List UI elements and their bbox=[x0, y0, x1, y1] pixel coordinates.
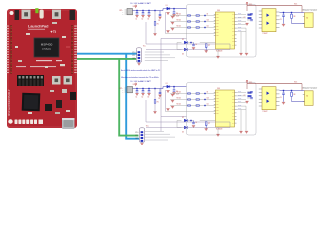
bottom module gate driver U3 bbox=[262, 87, 276, 110]
svg-text:GND: GND bbox=[135, 138, 138, 140]
bottom module VCC power rail to driver bbox=[247, 83, 302, 85]
svg-text:R3 10k: R3 10k bbox=[177, 98, 182, 100]
svg-text:Ultra-low-cost interface trans: Ultra-low-cost interface transmits the T… bbox=[121, 76, 159, 79]
svg-text:C11: C11 bbox=[207, 26, 210, 28]
svg-text:C4: C4 bbox=[158, 98, 160, 100]
svg-text:VCC: VCC bbox=[133, 84, 136, 86]
bottom module module box outline bbox=[187, 83, 257, 136]
top module row gnd stubs bbox=[166, 13, 169, 15]
bottom module U2 right net labels bbox=[237, 92, 247, 94]
svg-text:TC4427: TC4427 bbox=[263, 33, 268, 35]
bottom module feedback vertical net bbox=[165, 90, 167, 112]
svg-text:XD: XD bbox=[306, 95, 308, 97]
svg-text:D1: D1 bbox=[166, 83, 168, 85]
top module connector stub nets bbox=[145, 51, 164, 53]
bottom module battery terminal BT1 bbox=[127, 87, 133, 93]
svg-text:OUT4: OUT4 bbox=[238, 23, 242, 25]
left pin header J1 bbox=[6, 26, 9, 27]
top module VCC power rail to driver bbox=[247, 5, 302, 7]
bottom module VCC flag bbox=[135, 83, 137, 86]
top module VCC flag bbox=[135, 5, 137, 8]
svg-text:OUT2: OUT2 bbox=[238, 94, 242, 96]
svg-text:OUT2: OUT2 bbox=[238, 16, 242, 18]
bottom module net feeding input diodes bbox=[161, 115, 187, 117]
svg-text:C1: C1 bbox=[135, 96, 137, 98]
svg-text:R4 10k: R4 10k bbox=[177, 104, 182, 106]
right pin header J2 bbox=[74, 26, 77, 27]
top module capacitor C6 after diodes bbox=[188, 42, 194, 44]
svg-text:VDD: VDD bbox=[217, 10, 220, 12]
svg-text:C10: C10 bbox=[207, 98, 210, 100]
top module gate driver U3 bbox=[262, 9, 276, 32]
svg-text:PB7: PB7 bbox=[216, 113, 219, 115]
svg-text:C3: C3 bbox=[147, 96, 149, 98]
top module resistor R7 vertical bbox=[200, 42, 206, 44]
top module feedback resistor R1 bbox=[154, 11, 156, 22]
svg-text:VCC: VCC bbox=[143, 46, 146, 48]
svg-text:R8: R8 bbox=[294, 16, 296, 18]
svg-text:OUT1: OUT1 bbox=[238, 91, 242, 93]
svg-text:PB7: PB7 bbox=[216, 35, 219, 37]
svg-text:PB1: PB1 bbox=[216, 95, 219, 97]
svg-text:OUT1: OUT1 bbox=[238, 13, 242, 15]
bottom module capacitor C5 bbox=[173, 87, 175, 90]
bottom module U2 gnd stubs bbox=[240, 110, 242, 131]
svg-text:C4: C4 bbox=[158, 20, 160, 22]
top module net flags right of U2 bbox=[248, 14, 252, 16]
button S1 bbox=[52, 10, 61, 20]
svg-text:PB3: PB3 bbox=[216, 101, 219, 103]
svg-text:10uF: 10uF bbox=[176, 94, 179, 96]
svg-text:C9: C9 bbox=[207, 14, 209, 16]
svg-text:VDD: VDD bbox=[217, 88, 220, 90]
bottom module input diodes D2 D3 bbox=[177, 120, 182, 122]
white crystal oscillator bbox=[40, 10, 44, 19]
top module U2 right net labels bbox=[237, 14, 247, 16]
top module U2 gnd stubs bbox=[240, 32, 242, 53]
svg-text:VCC: VCC bbox=[146, 126, 149, 128]
svg-text:Each eZ430 wireless module att: Each eZ430 wireless module attach the UA… bbox=[121, 69, 161, 72]
MSP430 LaunchPad board bbox=[7, 9, 77, 128]
svg-text:PB2: PB2 bbox=[216, 20, 219, 22]
bottom module net VCC rail bbox=[133, 88, 164, 90]
svg-text:C8: C8 bbox=[280, 19, 282, 21]
top module capacitor C5 bbox=[173, 9, 175, 12]
bottom module output net to transducer bbox=[280, 90, 305, 92]
top module diode D1 bbox=[167, 7, 170, 10]
wire green from P2.1 to top module bbox=[77, 58, 136, 60]
svg-text:R4 10k: R4 10k bbox=[177, 26, 182, 28]
wire blue from P2.0 to top module bbox=[77, 53, 137, 55]
svg-text:D3: D3 bbox=[182, 132, 184, 134]
svg-text:P2.0: P2.0 bbox=[135, 132, 138, 134]
svg-text:C1: C1 bbox=[135, 18, 137, 20]
header top-right bbox=[70, 10, 76, 20]
svg-text:PB3: PB3 bbox=[216, 23, 219, 25]
svg-text:OUT5: OUT5 bbox=[238, 105, 242, 107]
top module output resistor R8 bbox=[291, 14, 293, 18]
bottom module boost IC U2 bbox=[216, 90, 235, 127]
top module module box outline bbox=[187, 5, 257, 58]
svg-text:P2.0: P2.0 bbox=[132, 52, 135, 54]
svg-text:PB6: PB6 bbox=[216, 32, 219, 34]
button S2 right bbox=[64, 76, 73, 85]
svg-text:R3 10k: R3 10k bbox=[177, 20, 182, 22]
green power LED bbox=[35, 8, 38, 13]
silkscreen jumper boxes bottom bbox=[15, 120, 18, 125]
small ICs near bottom bbox=[45, 104, 52, 111]
bottom module feedback resistor R1 bbox=[154, 89, 156, 100]
svg-text:P2.1: P2.1 bbox=[132, 55, 135, 57]
svg-text:PB5: PB5 bbox=[216, 107, 219, 109]
bottom module routing nets bbox=[145, 100, 147, 122]
top module output net to transducer bbox=[280, 12, 305, 14]
svg-text:C8: C8 bbox=[280, 97, 282, 99]
bottom module capacitor C4 bbox=[159, 89, 161, 93]
svg-text:D3: D3 bbox=[182, 54, 184, 56]
svg-text:F5529: F5529 bbox=[42, 47, 51, 51]
svg-text:LaunchPad: LaunchPad bbox=[28, 25, 49, 29]
svg-text:PB2: PB2 bbox=[216, 98, 219, 100]
svg-text:GND: GND bbox=[132, 58, 135, 60]
bottom module decoupling caps C1 C2 C3 bbox=[136, 89, 138, 91]
assorted passives bbox=[26, 33, 30, 35]
svg-text:PB0: PB0 bbox=[216, 14, 219, 16]
svg-text:PB1: PB1 bbox=[216, 17, 219, 19]
svg-text:OUT3: OUT3 bbox=[238, 20, 242, 22]
svg-text:C3: C3 bbox=[147, 18, 149, 20]
svg-text:PB4: PB4 bbox=[216, 104, 219, 106]
svg-text:D2: D2 bbox=[182, 117, 184, 119]
bottom module connector stub nets bbox=[145, 130, 164, 132]
wire blue branch down to bottom module bbox=[126, 54, 139, 139]
svg-text:P2.1: P2.1 bbox=[135, 135, 138, 137]
svg-text:D2: D2 bbox=[182, 39, 184, 41]
svg-text:C2: C2 bbox=[141, 96, 143, 98]
bottom module net flags right of U2 bbox=[248, 92, 252, 94]
top module routing nets bbox=[145, 22, 147, 44]
top module driver input caps bbox=[247, 13, 250, 15]
top module net feeding input diodes bbox=[161, 37, 187, 39]
top module timing network rows R2 R3 R4 bbox=[170, 15, 216, 17]
svg-text:✦TI: ✦TI bbox=[50, 30, 56, 34]
svg-text:C7: C7 bbox=[244, 17, 246, 19]
silkscreen text under chip bbox=[36, 60, 52, 61]
svg-text:TC4427: TC4427 bbox=[263, 111, 268, 113]
svg-text:MSP-EXP430F5529LP: MSP-EXP430F5529LP bbox=[7, 89, 11, 116]
svg-text:OUT3: OUT3 bbox=[238, 98, 242, 100]
svg-text:R2 10k: R2 10k bbox=[177, 14, 182, 16]
svg-text:C9: C9 bbox=[207, 92, 209, 94]
bottom module driver input caps bbox=[247, 91, 250, 93]
svg-text:D1: D1 bbox=[166, 5, 168, 7]
svg-text:R7: R7 bbox=[208, 123, 210, 125]
svg-text:PB6: PB6 bbox=[216, 110, 219, 112]
svg-text:MSP430: MSP430 bbox=[41, 43, 53, 47]
svg-text:R2 10k: R2 10k bbox=[177, 92, 182, 94]
svg-text:C11: C11 bbox=[207, 104, 210, 106]
bottom module junction dots on rail bbox=[136, 88, 137, 89]
top module boost IC U2 bbox=[216, 12, 235, 49]
top module net VCC rail bbox=[133, 10, 164, 12]
svg-text:TL494CN: TL494CN bbox=[216, 128, 222, 130]
svg-text:10uF: 10uF bbox=[176, 16, 179, 18]
svg-text:VCC: VCC bbox=[133, 6, 136, 8]
svg-text:XD: XD bbox=[306, 17, 308, 19]
svg-text:C6: C6 bbox=[195, 122, 197, 124]
top module interface connector J1 bbox=[136, 48, 141, 63]
svg-text:OUT4: OUT4 bbox=[238, 101, 242, 103]
bottom module output cap C8 bbox=[283, 91, 285, 93]
reset button S3 bbox=[22, 10, 31, 20]
bottom module capacitor C6 after diodes bbox=[188, 120, 194, 122]
svg-text:C2: C2 bbox=[141, 18, 143, 20]
top module capacitor C4 bbox=[159, 11, 161, 15]
isolation jumper block J101 bbox=[17, 75, 44, 86]
top module feedback vertical net bbox=[165, 12, 167, 34]
net vertical linking modules bbox=[160, 52, 162, 116]
svg-text:PB5: PB5 bbox=[216, 29, 219, 31]
bottom module interface connector J1 bbox=[139, 128, 144, 143]
micro USB connector bbox=[62, 118, 75, 129]
eZ-FET QFP debugger chip bbox=[22, 93, 41, 112]
svg-text:PB4: PB4 bbox=[216, 26, 219, 28]
button S2 left bbox=[52, 76, 61, 85]
bottom module row gnd stubs bbox=[166, 91, 169, 93]
board mounting holes bbox=[10, 11, 14, 15]
bottom module resistor R7 vertical bbox=[200, 120, 206, 122]
wire green branch down to bottom module bbox=[119, 59, 138, 136]
svg-text:R8: R8 bbox=[294, 94, 296, 96]
svg-text:C10: C10 bbox=[207, 20, 210, 22]
top module decoupling caps C1 C2 C3 bbox=[136, 11, 138, 13]
svg-text:R7: R7 bbox=[208, 45, 210, 47]
top module output cap C8 bbox=[283, 13, 285, 15]
svg-text:TL494CN: TL494CN bbox=[216, 50, 222, 52]
svg-text:C6: C6 bbox=[195, 44, 197, 46]
top module battery terminal BT1 bbox=[127, 9, 133, 15]
top module junction dots on rail bbox=[136, 10, 137, 11]
svg-text:R1: R1 bbox=[157, 23, 159, 25]
svg-text:R1: R1 bbox=[157, 101, 159, 103]
top module input diodes D2 D3 bbox=[177, 42, 182, 44]
crystal header top-left bbox=[15, 10, 20, 20]
svg-text:PB0: PB0 bbox=[216, 92, 219, 94]
bottom module diode D1 bbox=[167, 85, 170, 88]
svg-text:OUT5: OUT5 bbox=[238, 27, 242, 29]
svg-text:C7: C7 bbox=[244, 95, 246, 97]
bottom module output resistor R8 bbox=[291, 92, 293, 96]
MSP430F5529 MCU chip bbox=[34, 38, 59, 57]
bottom module timing network rows R2 R3 R4 bbox=[170, 93, 216, 95]
